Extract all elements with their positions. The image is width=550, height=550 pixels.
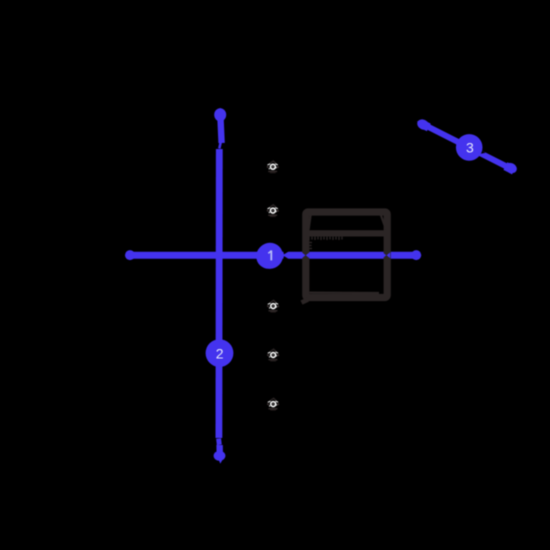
header divider <box>303 230 390 236</box>
wire: horizontal arrow shaft (line 1) <box>125 250 421 260</box>
arrowhead down-right <box>505 166 514 170</box>
arrowhead down <box>214 451 226 461</box>
wire: diagonal arrow (line 3) <box>415 117 518 175</box>
node badge 3 <box>456 134 483 161</box>
arrowhead up <box>214 108 226 121</box>
bottom-left tail <box>302 300 309 303</box>
inner bottom sketch line <box>310 292 380 295</box>
svg-text:3: 3 <box>466 140 474 156</box>
inner sketch trapezoid <box>309 214 386 230</box>
pin icon 5 <box>268 398 279 410</box>
pin icon 4 <box>268 349 279 361</box>
pin icon 3 <box>268 300 279 312</box>
arrowhead up-left <box>420 123 429 127</box>
pinch notches near badge 1 and badge 3 <box>283 150 485 259</box>
component box (dark sketch rectangle) <box>302 212 390 303</box>
pin icon 2 <box>267 205 278 217</box>
svg-text:2: 2 <box>216 345 224 361</box>
wire crossing notches: blue wedges at box-edge crossings <box>302 252 390 258</box>
node badge 2 <box>206 339 234 367</box>
node badge 1 <box>256 243 283 269</box>
wire: vertical arrow shaft (line 2) <box>214 108 227 464</box>
fringe ticks under divider <box>309 237 342 240</box>
left edge ticks <box>310 243 313 249</box>
arrowhead right <box>411 250 421 260</box>
arrowhead left <box>125 250 135 260</box>
pin icon 1 <box>267 161 278 173</box>
